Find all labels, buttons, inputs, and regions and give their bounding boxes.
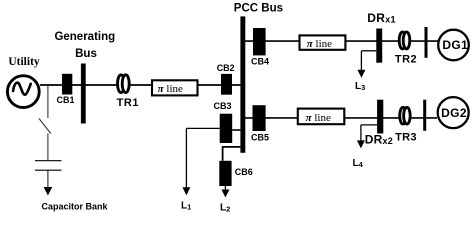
wire bus to CB6 elbow bbox=[223, 146, 241, 148]
PCC bus bar bbox=[240, 16, 245, 152]
bar before DG1 bbox=[425, 27, 428, 58]
arrow load L3 bbox=[357, 70, 365, 78]
wire feeder 1 (PCC bus to DG1) bbox=[245, 40, 438, 42]
wire L4 tap bbox=[361, 124, 377, 126]
svg-text:L1: L1 bbox=[181, 201, 191, 212]
wire L3 tap bbox=[361, 50, 376, 52]
utility sine waveform bbox=[13, 83, 31, 95]
svg-text:TR2: TR2 bbox=[395, 54, 417, 66]
pi line box main bbox=[152, 80, 198, 95]
svg-text:CB5: CB5 bbox=[251, 132, 269, 142]
arrow load L2 bbox=[221, 190, 229, 198]
svg-text:TR3: TR3 bbox=[395, 131, 417, 143]
circuit breaker CB1 bbox=[62, 74, 72, 95]
svg-text:Utility: Utility bbox=[8, 56, 40, 68]
svg-text:L4: L4 bbox=[353, 158, 364, 169]
svg-text:CB2: CB2 bbox=[217, 63, 235, 73]
circuit breaker CB4 bbox=[253, 28, 266, 55]
svg-text:CB3: CB3 bbox=[213, 101, 231, 111]
svg-text:DG1: DG1 bbox=[442, 38, 468, 52]
svg-text:L3: L3 bbox=[355, 81, 365, 92]
circuit breaker CB6 bbox=[219, 161, 231, 186]
generating bus bar bbox=[81, 64, 86, 124]
svg-text:Capacitor Bank: Capacitor Bank bbox=[41, 202, 108, 212]
wire below capacitor bbox=[47, 170, 49, 188]
circuit breaker CB2 bbox=[221, 74, 232, 95]
utility source G1 circle bbox=[7, 76, 39, 108]
generator DG1 bbox=[438, 30, 469, 61]
recloser bar DRx1 bbox=[376, 29, 382, 63]
recloser bar DRx2 bbox=[377, 100, 383, 134]
arrow load L4 bbox=[357, 140, 365, 148]
svg-text:Generating: Generating bbox=[54, 31, 115, 43]
wire main line utility to PCC bus bbox=[40, 84, 241, 86]
svg-text:PCC Bus: PCC Bus bbox=[234, 3, 283, 15]
wire switch to capacitor bbox=[47, 134, 49, 161]
arrow capacitor bank load bbox=[44, 187, 53, 196]
svg-text:π line: π line bbox=[306, 112, 331, 124]
transformer TR3 bbox=[400, 107, 407, 124]
wire CB3 to L1 branch bbox=[186, 127, 219, 129]
circuit breaker CB5 bbox=[253, 105, 266, 131]
wire feeder 2 (PCC bus to DG2) bbox=[245, 117, 437, 119]
transformer TR1 bbox=[118, 75, 125, 93]
svg-text:π line: π line bbox=[307, 38, 332, 50]
generator DG2 bbox=[438, 97, 469, 128]
arrow load L1 bbox=[182, 187, 190, 195]
svg-text:π line: π line bbox=[158, 83, 183, 95]
wire drop to capacitor bank bbox=[47, 86, 49, 118]
bar before DG2 bbox=[423, 100, 426, 131]
svg-text:CB1: CB1 bbox=[56, 95, 74, 105]
capacitor C plates bbox=[35, 160, 62, 162]
svg-text:TR1: TR1 bbox=[117, 97, 139, 109]
svg-text:CB6: CB6 bbox=[235, 167, 253, 177]
transformer TR2 bbox=[399, 32, 406, 49]
wire below CB6 bbox=[224, 186, 226, 190]
svg-text:L2: L2 bbox=[220, 203, 230, 214]
svg-text:Bus: Bus bbox=[75, 48, 97, 60]
wire L1 drop bbox=[185, 128, 187, 188]
svg-text:DG2: DG2 bbox=[441, 106, 467, 120]
pi line box feeder 2 bbox=[298, 109, 345, 125]
pi line box feeder 1 bbox=[300, 35, 346, 49]
svg-text:CB4: CB4 bbox=[251, 56, 269, 66]
wire CB3 to bus bbox=[232, 129, 240, 131]
circuit breaker CB3 bbox=[220, 114, 233, 143]
switch blade bbox=[39, 119, 51, 134]
